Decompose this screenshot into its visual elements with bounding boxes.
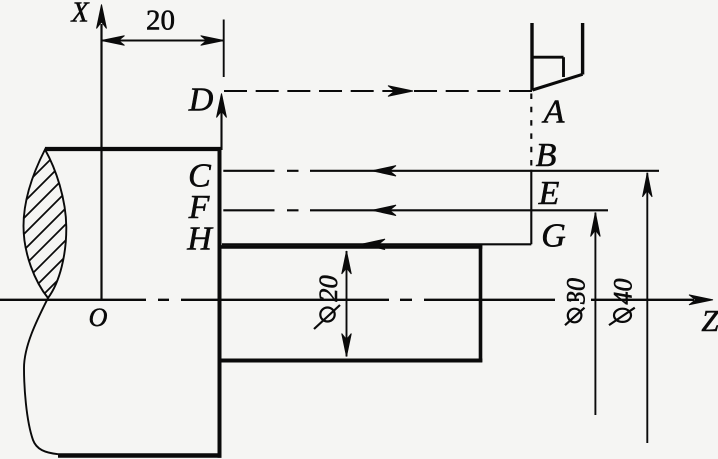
tool shank left edge xyxy=(530,23,533,91)
svg-text:20: 20 xyxy=(313,275,343,302)
dimension phi30 symbol ellipse xyxy=(568,309,582,323)
dimension phi30 symbol slash xyxy=(565,308,585,326)
dimension phi40 symbol slash xyxy=(609,308,635,325)
break lens outline xyxy=(24,150,67,299)
Z axis arrowhead xyxy=(689,295,713,305)
workpiece small cylinder bottom edge xyxy=(218,359,482,363)
path B to E to G vertical line xyxy=(530,170,532,245)
dimension phi20 line xyxy=(346,251,348,357)
workpiece small cylinder right edge xyxy=(479,245,483,362)
Z axis centerline (dash-dot) xyxy=(0,299,694,301)
dimension phi30 arrowhead up xyxy=(591,213,601,237)
workpiece big cylinder bottom edge xyxy=(58,453,222,457)
path E-F arrowhead left xyxy=(372,205,396,215)
tool notch vertical xyxy=(562,57,565,77)
dimension phi20 top arrowhead xyxy=(342,251,352,274)
path D to A dashed line xyxy=(224,90,532,92)
svg-text:A: A xyxy=(542,94,565,131)
tool shank right edge xyxy=(581,23,584,75)
svg-text:D: D xyxy=(188,82,214,119)
svg-text:X: X xyxy=(70,0,89,29)
svg-text:30: 30 xyxy=(562,278,591,305)
dimension phi20 bottom arrowhead xyxy=(342,334,352,357)
svg-text:O: O xyxy=(89,303,108,332)
svg-text:G: G xyxy=(541,218,566,255)
path E to F line (with center break) xyxy=(223,209,608,211)
dimension phi40 line xyxy=(646,173,648,443)
svg-text:H: H xyxy=(186,221,214,258)
dimension phi20 symbol ellipse xyxy=(320,308,334,322)
break S-curve lower xyxy=(24,298,58,454)
dimension 20 line xyxy=(102,40,224,42)
path G to H line xyxy=(222,243,531,245)
svg-text:Z: Z xyxy=(701,303,718,338)
dimension phi20 symbol slash xyxy=(314,305,340,329)
tool cutting edge diagonal xyxy=(533,74,583,90)
X axis arrowhead xyxy=(97,5,107,29)
dimension phi40 symbol ellipse xyxy=(614,309,631,322)
workpiece big cylinder right edge xyxy=(218,147,222,458)
path G-H arrowhead left xyxy=(361,239,385,249)
svg-text:20: 20 xyxy=(146,5,175,37)
workpiece small cylinder top edge H xyxy=(218,245,482,249)
dimension 20 extension line xyxy=(223,20,225,78)
tool notch horizontal xyxy=(532,56,564,59)
path D-A arrowhead right xyxy=(388,86,413,97)
path A to B dashed line xyxy=(530,94,532,169)
X axis line xyxy=(100,24,102,300)
workpiece big cylinder top edge xyxy=(45,147,222,151)
path C to D retract line xyxy=(220,96,222,150)
svg-text:B: B xyxy=(536,137,557,174)
path B-C arrowhead left xyxy=(372,166,396,176)
svg-text:40: 40 xyxy=(609,279,638,305)
dimension 20 right arrowhead xyxy=(201,36,224,46)
path B to C line (with center break) xyxy=(223,170,659,172)
path C-D arrowhead up xyxy=(217,94,227,118)
dimension phi30 line xyxy=(594,213,596,416)
svg-text:E: E xyxy=(538,175,560,212)
dimension 20 left arrowhead xyxy=(102,36,125,46)
dimension phi40 arrowhead up xyxy=(643,173,653,197)
